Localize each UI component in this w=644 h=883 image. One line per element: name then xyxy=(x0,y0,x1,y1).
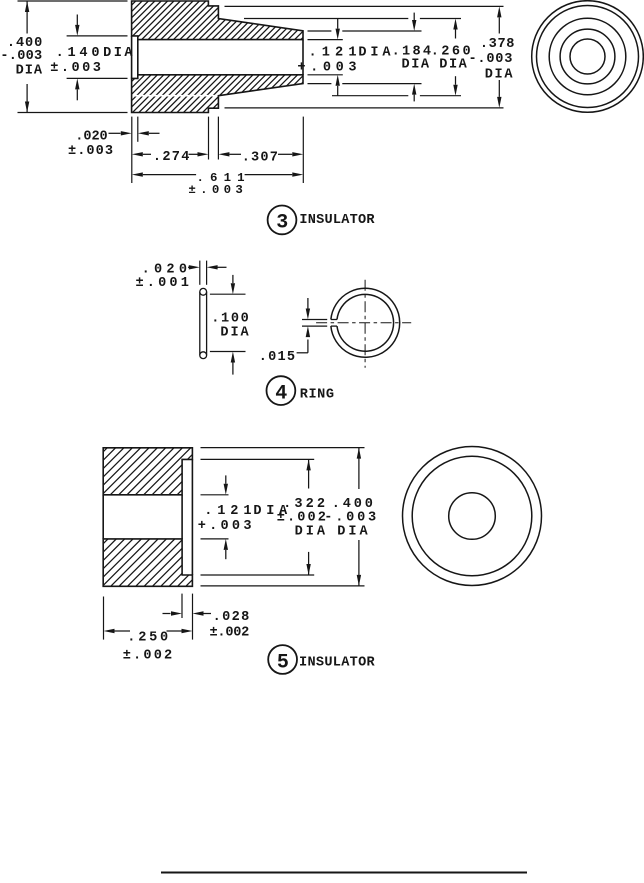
part 3 insulator: bottom section wall with hatching xyxy=(94,75,335,113)
part 5 front view circle dia .400 xyxy=(403,447,542,586)
part 5 text .250 ±.002 xyxy=(123,631,173,664)
svg-text:.028: .028 xyxy=(213,610,250,625)
svg-text:-.003: -.003 xyxy=(469,52,513,67)
part 5 ext line below left face xyxy=(103,597,105,640)
part 3 dim .140 bottom extension line xyxy=(67,77,128,79)
part 3 white knockout line over bottom hatch at .260 level xyxy=(132,95,219,97)
part 3 dim .307 line with arrows xyxy=(218,152,303,156)
part 3 dim .184 bottom extension line (broken at .121 arrow) xyxy=(308,83,422,85)
part 5 top edge extension line xyxy=(201,447,365,449)
svg-text:DIA: DIA xyxy=(16,64,43,79)
part 3 dim .140 top extension line xyxy=(67,35,128,37)
part 4 ring side view: bottom wire circle xyxy=(200,352,207,359)
part 3 counterbore shoulder line through bore xyxy=(137,40,139,75)
svg-text:DIA: DIA xyxy=(220,326,249,341)
svg-text:DIA: DIA xyxy=(485,67,514,82)
svg-text:±.001: ±.001 xyxy=(136,276,189,291)
svg-text:DIA: DIA xyxy=(402,57,430,72)
part 4 balloon circle with number 4 xyxy=(267,376,296,405)
part 5 text .121 DIA +.003 xyxy=(198,504,288,534)
svg-text:±.003: ±.003 xyxy=(50,61,101,76)
part 4 ring front view: split cut faces xyxy=(331,320,337,327)
part 3 text .260 DIA xyxy=(431,44,471,72)
svg-text:-.003: -.003 xyxy=(0,49,42,64)
svg-text:.378: .378 xyxy=(480,37,515,52)
part 3 dim .121 top extension line xyxy=(308,39,343,41)
part 3 end face line through bore xyxy=(302,40,304,75)
part 3 dim .378 top extension line xyxy=(225,5,504,7)
part 4 dim .020 arrows xyxy=(188,265,227,269)
part 3 outer profile outline xyxy=(132,1,303,113)
part 4 dim .100 top extension line xyxy=(210,293,246,295)
part 5 ext line below right face xyxy=(192,594,194,640)
part 3 dim .400 vertical dimension line with arrows xyxy=(25,1,29,113)
part 3 dim .121 bottom extension line xyxy=(308,74,343,76)
part 3 dim .260 top extension line (broken at .184 arrow) xyxy=(244,18,461,20)
part 4 ring side view: top wire circle xyxy=(200,288,207,295)
part 5 left face line through bore xyxy=(102,495,104,539)
svg-text:INSULATOR: INSULATOR xyxy=(299,656,376,671)
svg-text:±.002: ±.002 xyxy=(123,649,173,664)
part 4 ring front view: horizontal centerline xyxy=(316,322,411,324)
svg-text:DIA: DIA xyxy=(103,46,133,61)
svg-text:5: 5 xyxy=(277,651,289,674)
part 5 recess bottom extension line xyxy=(201,574,315,576)
part 5 dim .400 line with arrows xyxy=(357,448,361,586)
part 5 recess top extension line xyxy=(201,458,315,460)
part 3 ext line at counterbore x=137.8 xyxy=(137,117,139,142)
part 4 dim .015 extension stubs xyxy=(302,320,327,327)
part 5 text .028 ±.002 xyxy=(210,610,250,641)
part 5 dim .250 line with arrows xyxy=(104,629,193,633)
part 4 dim .100 arrows xyxy=(231,275,235,375)
part 3 front view circle dia .378 xyxy=(537,6,639,108)
part 3 dim .121 arrows xyxy=(336,19,340,96)
part 3 dim .260 bottom extension line (broken at .184 arrow) xyxy=(332,95,461,97)
part 5 front view circle dia .121 xyxy=(449,493,496,540)
svg-text:.307: .307 xyxy=(242,150,278,165)
part 4 dim .100 bottom extension line xyxy=(210,351,246,353)
part 3 dim .400 top extension line xyxy=(18,0,128,2)
part 3 balloon circle with number 3 xyxy=(268,206,297,235)
part 4 text .020 ±.001 xyxy=(136,262,189,291)
part 4 ring front view: vertical centerline xyxy=(364,280,366,368)
svg-text:DIA: DIA xyxy=(439,57,467,72)
part 3 text .274 xyxy=(153,150,190,165)
svg-text:4: 4 xyxy=(275,382,287,405)
part 5 recess floor line through bore xyxy=(181,495,183,539)
svg-text:RING: RING xyxy=(300,388,334,403)
part 5 bore bottom extension line xyxy=(201,538,229,540)
part 3 ext line at step x=208.5 xyxy=(208,117,210,160)
part 3 dim .184 arrows xyxy=(412,13,416,102)
part 3 text .020 ±.003 xyxy=(68,130,113,160)
part 3 label INSULATOR xyxy=(299,213,375,228)
part 3 text .400 -.003 DIA xyxy=(0,36,43,79)
part 3 dim .140 arrows xyxy=(75,15,79,101)
part 3 ext line at right end x=303.3 xyxy=(302,117,304,183)
part 4 ring front view: inner circle with split gap xyxy=(337,294,394,351)
part 5 label INSULATOR xyxy=(299,656,376,671)
bottom horizontal rule xyxy=(161,872,527,874)
part 3 dim .378 bottom extension line xyxy=(225,107,504,109)
part 3 left face line through counterbore xyxy=(131,36,133,79)
svg-text:±.002: ±.002 xyxy=(210,626,250,641)
part 3 text .307 xyxy=(242,150,278,165)
svg-text:.020: .020 xyxy=(75,130,107,145)
svg-text:.015: .015 xyxy=(259,350,295,365)
part 3 dim .274 line with arrows xyxy=(132,152,209,156)
part 5 balloon circle with number 5 xyxy=(268,645,297,674)
part 3 text .121 DIA +.003 xyxy=(297,46,391,76)
part 3 front view circle dia .400 xyxy=(532,1,644,113)
part 3 dim .020 arrows xyxy=(109,131,160,135)
part 4 text .100 DIA xyxy=(211,311,249,340)
svg-text:DIA: DIA xyxy=(295,524,326,539)
part 3 dim .184 top extension line (broken at .121 arrow) xyxy=(308,30,422,32)
part 5 dim .322 line with arrows xyxy=(306,459,310,575)
part 3 dim .611 line with arrows xyxy=(132,172,303,176)
part 3 ext line at taper start x=218.4 xyxy=(217,117,219,160)
svg-text:INSULATOR: INSULATOR xyxy=(299,213,375,228)
part 3 dim .260 arrows xyxy=(453,19,457,96)
part 5 dim .028 arrows xyxy=(163,611,212,615)
part 5 insulator: bottom section wall with hatching xyxy=(61,539,234,586)
part 4 dim .015 arrows xyxy=(297,298,311,353)
part 3 text .611 ±.003 xyxy=(188,171,244,197)
part 4 text .015 xyxy=(259,350,295,365)
svg-text:.100: .100 xyxy=(211,311,249,326)
part 5 front view circle dia .322 xyxy=(412,456,532,576)
part 5 ext line below recess floor xyxy=(181,594,183,618)
part 3 insulator: top section wall with hatching xyxy=(97,1,339,40)
part 5 outline xyxy=(103,448,192,587)
part 3 dim .400 bottom extension line xyxy=(18,112,128,114)
part 5 text .400 -.003 DIA xyxy=(324,497,376,539)
svg-text:3: 3 xyxy=(276,212,288,235)
part 4 label RING xyxy=(300,388,334,403)
part 5 insulator: top section wall with hatching xyxy=(60,448,232,495)
part 5 right face line through recess xyxy=(191,459,193,575)
part 3 ext line at left face x=131.6 xyxy=(131,117,133,183)
svg-text:DIA: DIA xyxy=(337,524,368,539)
part 5 bottom edge extension line xyxy=(201,585,365,587)
part 4 ring side view: silhouette lines xyxy=(200,292,207,355)
part 3 text .378 -.003 DIA xyxy=(469,37,515,82)
part 5 text .322 ±.002 DIA xyxy=(277,497,326,539)
svg-text:DIA: DIA xyxy=(358,46,391,61)
part 5 bore top extension line xyxy=(201,494,229,496)
part 3 front view circle dia .260 xyxy=(549,18,626,95)
part 3 front view circle dia .140 xyxy=(570,39,605,74)
part 3 text .184 DIA xyxy=(392,44,432,72)
part 4 ring front view: outer circle with split gap xyxy=(331,288,400,357)
part 4 dim .020 extension lines xyxy=(200,261,207,285)
svg-text:.274: .274 xyxy=(153,150,190,165)
part 3 dim .378 arrows xyxy=(497,6,501,108)
svg-text:±.003: ±.003 xyxy=(68,144,113,159)
part 5 dim .121 arrows xyxy=(224,475,228,559)
part 3 text .140 DIA ±.003 xyxy=(50,46,133,76)
part 3 front view circle dia .184 xyxy=(560,29,615,84)
svg-text:+.003: +.003 xyxy=(198,519,252,534)
